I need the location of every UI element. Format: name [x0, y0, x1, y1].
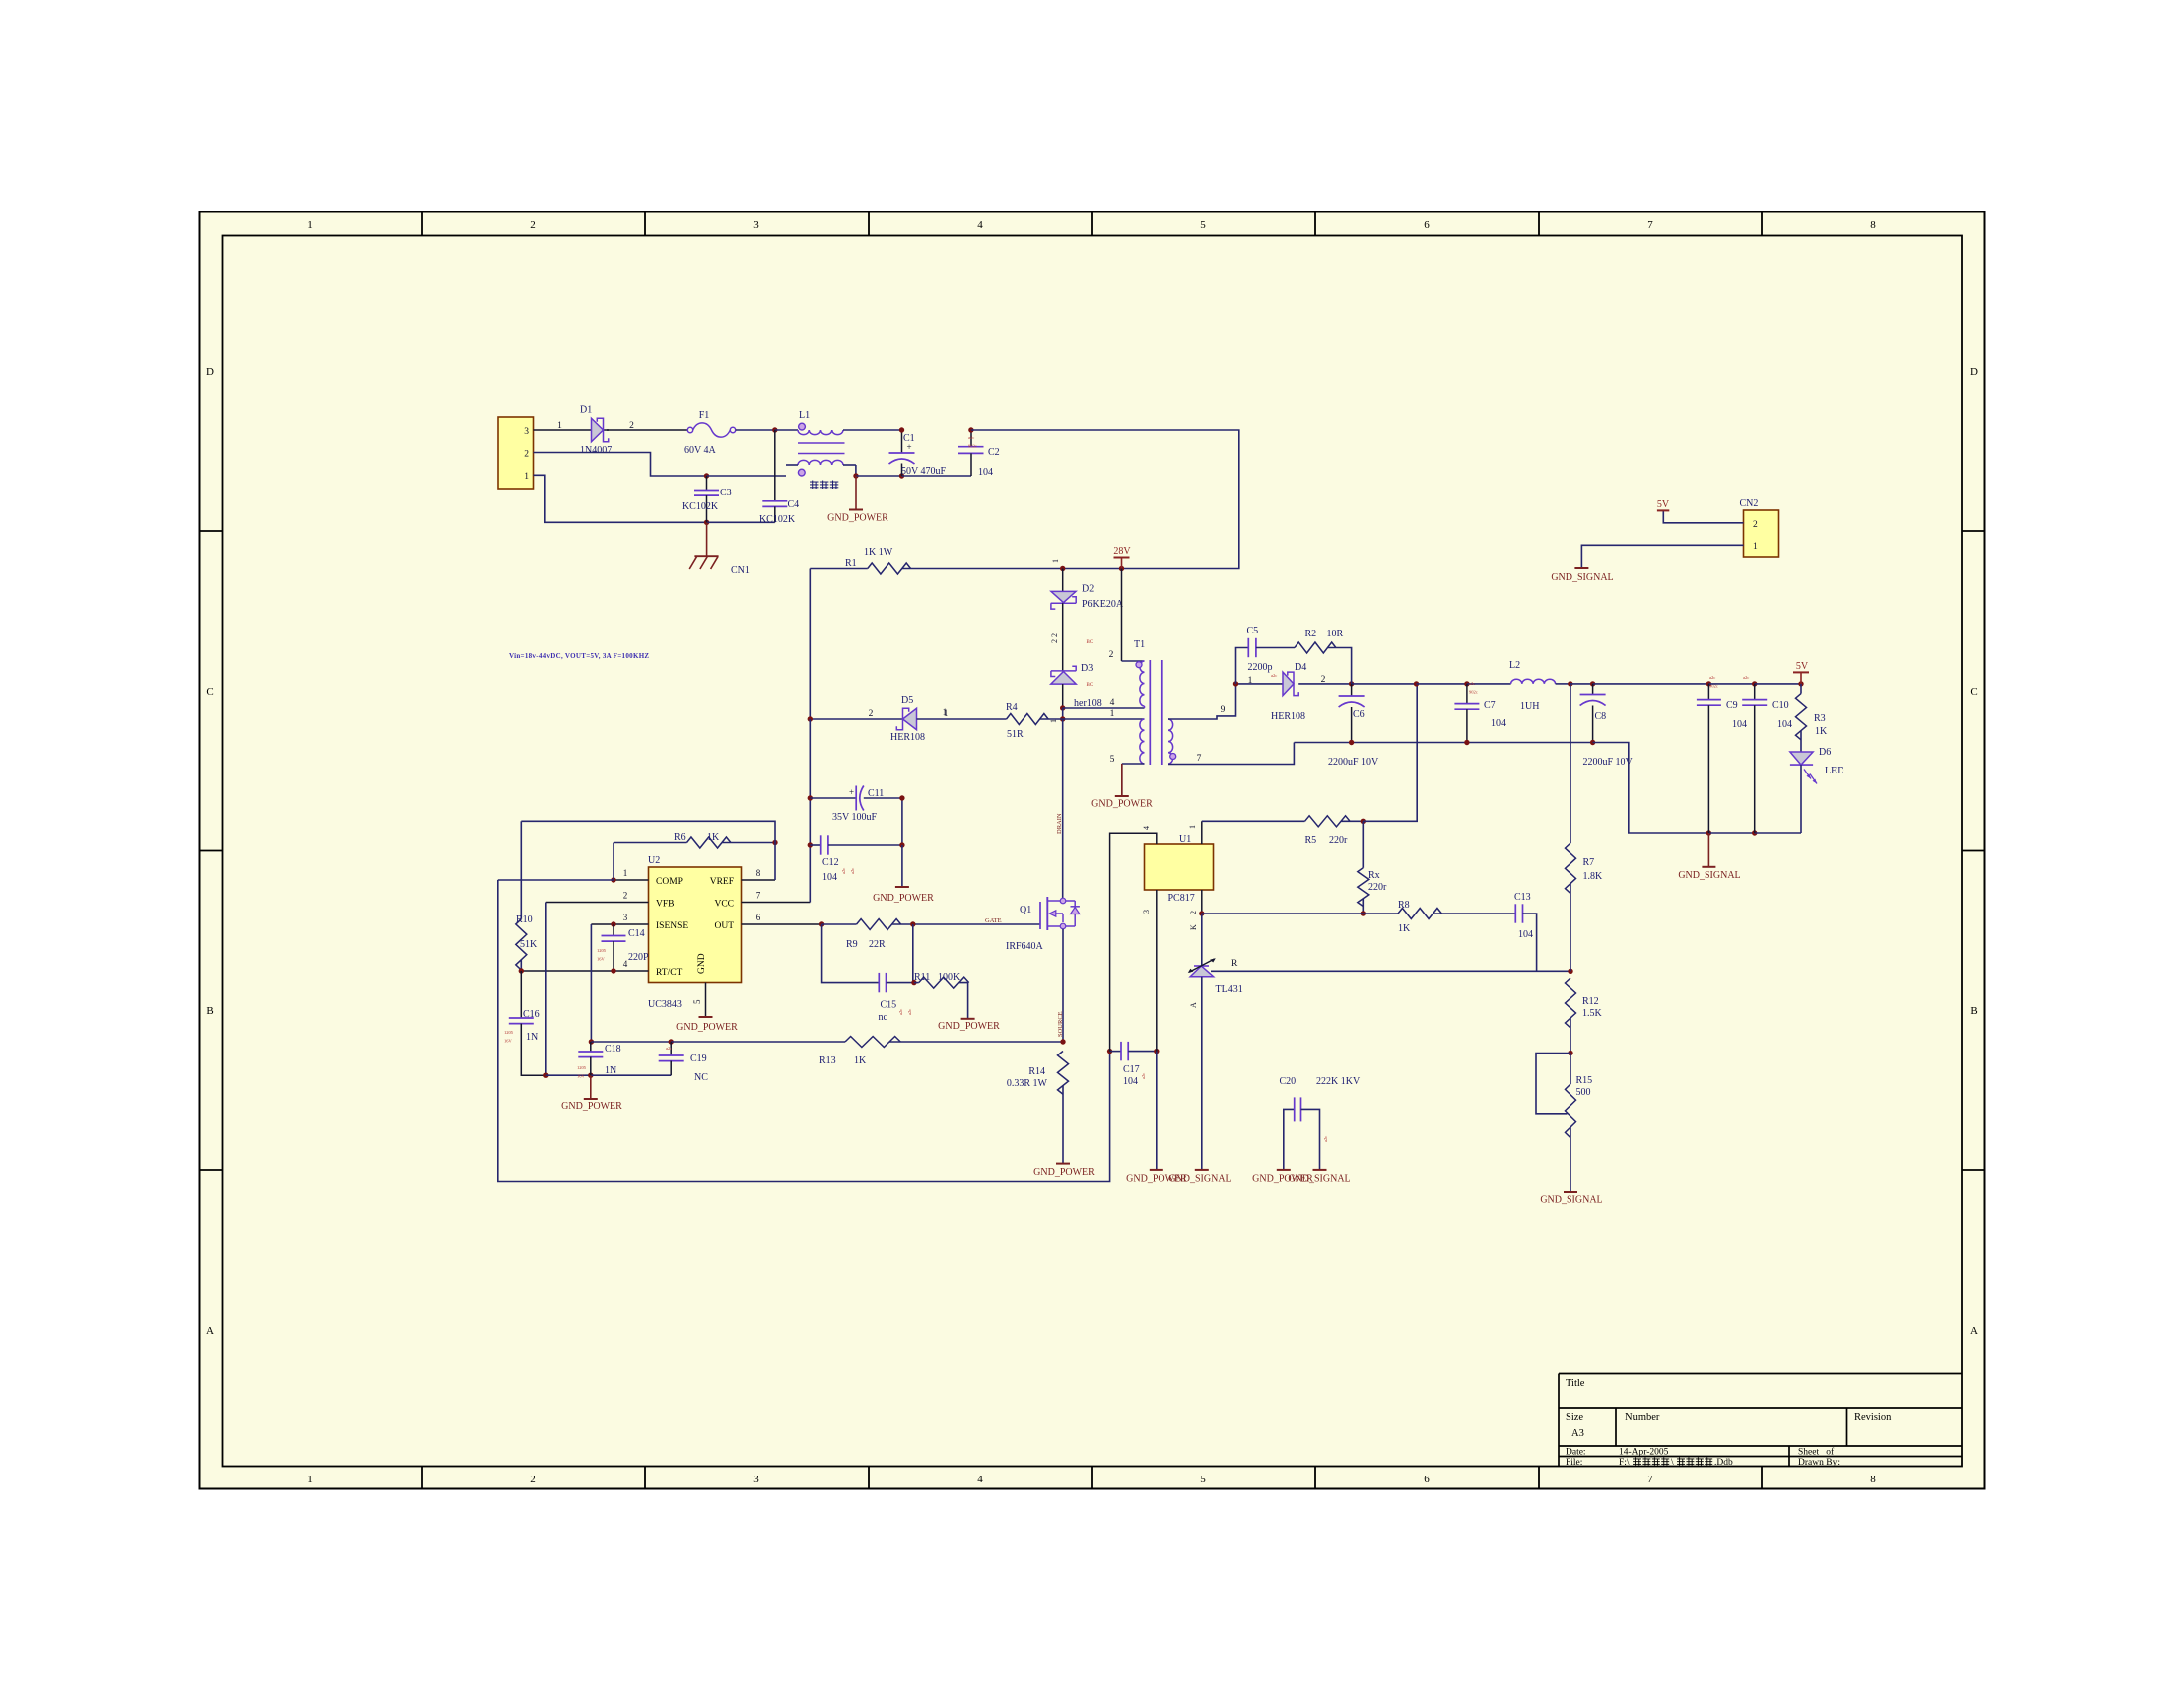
R9 value 22R — [869, 939, 886, 950]
wire R9 left lead — [822, 923, 857, 925]
wire rail to D4 — [1236, 683, 1284, 685]
small red mark above C2 — [968, 435, 977, 449]
U2 pin 4 RT/CT — [521, 959, 648, 971]
svg-text:D2: D2 — [1082, 584, 1094, 595]
wire C15 to R11 — [887, 982, 914, 984]
svg-text:7: 7 — [1197, 754, 1202, 764]
junction at F1/L1/C4 node — [772, 427, 777, 432]
pin number 2 of D5 — [869, 709, 874, 719]
capacitor C2 — [958, 430, 984, 476]
ground GND_POWER C11/C12 — [895, 886, 909, 888]
C20 value 222K 1KV — [1316, 1076, 1361, 1087]
svg-text:C1: C1 — [903, 433, 915, 444]
wire gate node down to R11 — [912, 924, 914, 983]
svg-text:16V: 16V — [577, 1074, 586, 1079]
svg-text:5: 5 — [692, 999, 702, 1004]
U1 pin 4 wire — [1110, 833, 1157, 1051]
net letter A — [1189, 1002, 1198, 1008]
svg-text:R: R — [1231, 959, 1238, 969]
svg-text:GND_SIGNAL: GND_SIGNAL — [1288, 1174, 1350, 1185]
resistor R5 — [1305, 816, 1351, 827]
svg-text:1UH: 1UH — [1520, 701, 1539, 712]
svg-text:8: 8 — [1870, 1474, 1876, 1485]
wire C7 to L2 — [1467, 683, 1511, 685]
wire R15 to ground — [1570, 1127, 1571, 1192]
svg-text:1205: 1205 — [504, 1030, 514, 1035]
GND_POWER label input filter — [827, 513, 888, 524]
svg-text:8: 8 — [1870, 219, 1876, 231]
resistor R10 — [516, 919, 527, 970]
IC U2 UC3843 — [649, 867, 742, 983]
svg-text:4: 4 — [977, 219, 983, 231]
resistor R12 — [1566, 978, 1576, 1028]
R15 designator — [1576, 1075, 1593, 1086]
net label GATE — [985, 917, 1002, 924]
D2 value P6KE20A — [1082, 599, 1124, 610]
svg-text:1N: 1N — [605, 1065, 616, 1076]
GND_POWER label T1 pin5 — [1091, 799, 1153, 810]
svg-text:L1: L1 — [799, 410, 810, 421]
D1 designator — [580, 405, 592, 416]
svg-text:nc: nc — [879, 1012, 888, 1023]
C1 designator — [903, 433, 915, 444]
C11 designator — [868, 788, 884, 799]
GND_POWER label C11/C12 — [873, 893, 934, 904]
svg-text:a2c: a2c — [898, 1009, 903, 1015]
pin number 7 of T1 — [1197, 754, 1202, 764]
wire D6 to gnd rail — [1800, 765, 1802, 833]
svg-text:F1: F1 — [699, 410, 710, 421]
wire CN2 pin2 to 5V — [1663, 510, 1743, 522]
U2 pin 5 GND — [692, 983, 706, 1018]
svg-text:IRF640A: IRF640A — [1006, 941, 1044, 952]
wire D1 to F1 — [607, 429, 609, 431]
junction at C10 top — [1752, 681, 1757, 686]
red mark at C12 — [841, 868, 855, 874]
red mark at C10 top — [1743, 675, 1749, 680]
R1 value 1K 1W — [864, 547, 893, 558]
svg-text:C11: C11 — [868, 788, 884, 799]
svg-text:A: A — [1970, 1325, 1978, 1336]
svg-text:OUT: OUT — [714, 921, 734, 931]
svg-text:B: B — [206, 1005, 213, 1017]
wire R2 down to C6 node — [1328, 648, 1352, 684]
C12 designator — [822, 857, 839, 868]
svg-text:D6: D6 — [1819, 747, 1831, 758]
svg-text:a2c: a2c — [1323, 1136, 1328, 1142]
svg-text:GND_SIGNAL: GND_SIGNAL — [1678, 870, 1740, 881]
R8 value 1K — [1398, 923, 1411, 934]
R5 designator — [1305, 835, 1317, 846]
resistor R8 — [1398, 909, 1441, 919]
svg-text:R10: R10 — [516, 914, 533, 925]
svg-text:GND_POWER: GND_POWER — [873, 893, 934, 904]
wire U1 pin3 to ground — [1156, 1052, 1158, 1170]
svg-text:1: 1 — [307, 219, 313, 231]
C8 designator — [1595, 711, 1607, 722]
svg-text:C10: C10 — [1772, 700, 1789, 711]
svg-text:104: 104 — [1518, 929, 1533, 940]
wire L1 return to C1 bottom — [856, 475, 902, 477]
svg-text:104: 104 — [1732, 719, 1747, 730]
wire CN1 pin3 to D1 — [534, 429, 688, 431]
svg-text:C15: C15 — [881, 1000, 897, 1011]
svg-text:R4: R4 — [1006, 702, 1018, 713]
pin number 2 of D1 — [629, 421, 634, 431]
wire ISENSE down to sense rail — [590, 924, 592, 1042]
svg-text:1: 1 — [623, 868, 628, 878]
svg-text:0.33R 1W: 0.33R 1W — [1007, 1078, 1048, 1089]
capacitor C10 — [1742, 684, 1767, 833]
net label DRAIN — [1056, 813, 1063, 834]
wire to R6 left — [614, 842, 687, 844]
svg-text:104: 104 — [978, 467, 993, 478]
svg-text:SOURCE: SOURCE — [1057, 1011, 1064, 1037]
svg-text:BC: BC — [1087, 640, 1094, 645]
capacitor C1 — [889, 430, 915, 476]
wire C9 to C10 — [1708, 683, 1754, 685]
ground GND_SIGNAL TL431 — [1195, 1169, 1209, 1171]
red mark at C16 — [504, 1030, 514, 1044]
wire down to VREF pin — [774, 843, 776, 881]
svg-text:8: 8 — [756, 868, 761, 878]
svg-text:3: 3 — [1142, 910, 1151, 914]
svg-text:9: 9 — [1221, 705, 1226, 715]
junction at source / R14 — [1060, 1039, 1065, 1044]
svg-text:1K: 1K — [707, 832, 720, 843]
svg-text:GND_POWER: GND_POWER — [938, 1021, 1000, 1032]
C9 designator — [1726, 700, 1738, 711]
svg-text:Date:: Date: — [1566, 1448, 1586, 1458]
resistor R13 — [845, 1037, 900, 1048]
svg-text:50V 470uF: 50V 470uF — [901, 466, 947, 477]
wire R7 to R row — [1570, 884, 1571, 972]
wire return rail jog down — [1593, 743, 1709, 834]
ground GND_SIGNAL C20 right — [1313, 1169, 1327, 1171]
wire C16 top lead — [520, 971, 522, 1018]
R2 value 10R — [1327, 629, 1344, 639]
svg-text:GATE: GATE — [985, 917, 1002, 924]
wire TL431 anode to ground — [1201, 977, 1203, 1170]
wire VFB down — [545, 903, 547, 1076]
svg-text:C5: C5 — [1247, 626, 1259, 636]
svg-text:1: 1 — [557, 421, 562, 431]
svg-text:a2c: a2c — [850, 868, 855, 874]
pin number 1 of U1 — [1188, 825, 1197, 829]
svg-text:7: 7 — [756, 891, 761, 901]
Rx designator — [1368, 870, 1380, 881]
C10 value 104 — [1777, 719, 1792, 730]
svg-text:C14: C14 — [628, 928, 645, 939]
U2 pin 2 VFB — [546, 891, 649, 903]
svg-text:16V: 16V — [597, 957, 606, 962]
svg-text:R14: R14 — [1028, 1066, 1045, 1077]
wire to D5 — [810, 718, 916, 720]
junction at C10 bottom — [1752, 830, 1757, 835]
R14 value 0.33R 1W — [1007, 1078, 1048, 1089]
LED D6 — [1790, 752, 1817, 784]
svg-text:902c: 902c — [1469, 690, 1478, 695]
svg-text:L2: L2 — [1509, 660, 1520, 671]
svg-text:5: 5 — [1110, 755, 1115, 765]
pin number 1 of T1 — [1110, 709, 1115, 719]
C17 value 104 — [1123, 1076, 1138, 1087]
capacitor C3 — [694, 476, 719, 522]
D6 value LED — [1825, 766, 1843, 776]
pin number 5 of T1 — [1110, 755, 1115, 765]
junction at T1 pin1 / R4 / drain — [1060, 716, 1065, 721]
ground GND_POWER U1 pin3 — [1150, 1169, 1163, 1171]
wire R row to divider — [1211, 970, 1570, 972]
wire R1 corner down to D5 node — [809, 569, 811, 720]
junction at C19 top — [669, 1039, 674, 1044]
svg-text:1: 1 — [1753, 542, 1758, 552]
svg-text:C12: C12 — [822, 857, 839, 868]
R10 value 51K — [520, 939, 538, 950]
svg-text:902c: 902c — [968, 444, 977, 449]
svg-text:GND: GND — [697, 953, 707, 974]
wire R14 to ground — [1062, 1086, 1064, 1164]
svg-text:P6KE20A: P6KE20A — [1082, 599, 1124, 610]
svg-text:1: 1 — [1110, 709, 1115, 719]
pin number 2 of T1 — [1109, 650, 1114, 660]
power 5V at CN2 — [1657, 499, 1670, 510]
C7 value 104 — [1491, 718, 1506, 729]
ground GND_SIGNAL R15 — [1564, 1191, 1577, 1193]
svg-text:File:: File: — [1566, 1458, 1582, 1468]
svg-text:1K: 1K — [1398, 923, 1411, 934]
pin numbers 2 2 of D2/D3 — [1050, 633, 1059, 643]
svg-text:51R: 51R — [1007, 729, 1024, 740]
GND_POWER label U1 pin3 — [1126, 1174, 1187, 1185]
R3 designator — [1814, 713, 1826, 724]
resistor R7 — [1566, 843, 1576, 894]
F1 value 60V 4A — [684, 445, 717, 456]
junction at C12 left — [808, 842, 813, 847]
C14 value 220P — [628, 952, 649, 963]
R11 designator — [914, 972, 930, 983]
Q1 designator — [1020, 905, 1031, 915]
svg-text:4: 4 — [977, 1474, 983, 1485]
svg-text:500: 500 — [1576, 1087, 1591, 1098]
svg-text:3: 3 — [753, 1474, 759, 1485]
wire R10 to RT/CT node — [520, 960, 522, 971]
R5 value 220r — [1329, 835, 1348, 846]
GND_SIGNAL label TL431 — [1168, 1174, 1231, 1185]
svg-text:a2c: a2c — [907, 1009, 912, 1015]
C15 designator — [881, 1000, 897, 1011]
wire R7 top lead — [1570, 684, 1571, 843]
svg-text:VFB: VFB — [656, 900, 674, 910]
C11 value 35V 100uF — [832, 812, 878, 823]
inductor L2 — [1511, 679, 1556, 684]
svg-text:a2c: a2c — [1469, 681, 1475, 686]
wire R12 to R15 — [1570, 1018, 1571, 1054]
pin number 2 of U1 — [1189, 911, 1198, 914]
junction at C1 top — [899, 427, 904, 432]
svg-text:D: D — [1970, 366, 1978, 378]
junction at C11 left — [808, 795, 813, 800]
T1 designator — [1134, 639, 1145, 650]
wire sense rail to R13 — [671, 1041, 845, 1043]
pin number 3 of U1 — [1142, 910, 1151, 914]
wire K down to TL431 — [1201, 914, 1203, 965]
U1 pin 2 stub — [1201, 890, 1203, 914]
junction at C12 right — [899, 842, 904, 847]
svg-text:CN1: CN1 — [731, 565, 750, 576]
svg-text:K: K — [1189, 924, 1198, 930]
wire R8 to C13 — [1433, 913, 1516, 914]
R3 value 1K — [1815, 726, 1828, 737]
svg-text:B: B — [1970, 1005, 1977, 1017]
U1 designator — [1179, 834, 1191, 845]
U2 pin 8 VREF — [742, 868, 776, 880]
svg-text:16V: 16V — [504, 1039, 513, 1044]
wire D5 to R4 — [917, 718, 1007, 720]
svg-text:C: C — [206, 686, 213, 698]
capacitor C19 — [659, 1042, 684, 1075]
wire C10 to 5V — [1755, 683, 1801, 685]
svg-text:D1: D1 — [580, 405, 592, 416]
net label R — [1231, 959, 1238, 969]
R9 designator — [846, 939, 858, 950]
svg-text:F:\: F:\ — [1619, 1458, 1630, 1468]
wire D2 to D3 — [1062, 603, 1064, 671]
resistor R6 — [687, 837, 731, 848]
svg-text:28V: 28V — [1113, 546, 1131, 557]
GND_POWER label R11 — [938, 1021, 1000, 1032]
svg-text:2: 2 — [1109, 650, 1114, 660]
R12 designator — [1582, 996, 1599, 1007]
C2 designator — [988, 447, 1000, 458]
junction at ISENSE / C14 — [611, 921, 615, 926]
capacitor C4 — [762, 430, 787, 522]
svg-text:R8: R8 — [1398, 900, 1410, 911]
junction at C2 top — [968, 427, 973, 432]
wire gnd rail C10-D6 — [1755, 832, 1801, 834]
capacitor C9 — [1697, 684, 1721, 833]
wire down to ground C12 — [901, 845, 903, 887]
pin number 1 of D4 — [1248, 676, 1253, 686]
wire return rail C6-C8 — [1294, 742, 1592, 744]
svg-text:C17: C17 — [1123, 1064, 1140, 1075]
GND_POWER label C20 — [1252, 1174, 1313, 1185]
svg-text:R13: R13 — [819, 1055, 836, 1066]
svg-text:6: 6 — [1424, 1474, 1430, 1485]
junction at D5 row / VCC column — [808, 716, 813, 721]
C13 designator — [1514, 892, 1531, 903]
GND_SIGNAL label CN2 — [1551, 572, 1613, 583]
junction at C5 / T1 pin9 — [1233, 681, 1238, 686]
wire R15 wiper loop — [1536, 1054, 1570, 1114]
GND_POWER label R14 — [1033, 1167, 1095, 1178]
U2 pin 1 COMP — [614, 868, 649, 880]
shunt regulator TL431 — [1188, 958, 1216, 977]
svg-text:GND_SIGNAL: GND_SIGNAL — [1540, 1195, 1602, 1206]
ground GND_POWER T1 pin5 — [1115, 764, 1129, 796]
svg-text:KC102K: KC102K — [759, 514, 796, 525]
wire Q1 source down — [1062, 929, 1064, 1042]
U2 pin 3 ISENSE — [591, 913, 648, 924]
ground GND_SIGNAL CN2 — [1574, 567, 1588, 569]
ground GND_POWER input filter — [849, 476, 863, 510]
svg-text:GND_POWER: GND_POWER — [1091, 799, 1153, 810]
D4 designator — [1295, 662, 1306, 673]
svg-text:2: 2 — [530, 1474, 536, 1485]
wire sense rail to C19 — [591, 1041, 671, 1043]
R10 designator — [516, 914, 533, 925]
wire bottom rail right segment — [591, 1074, 671, 1076]
svg-text:14-Apr-2005: 14-Apr-2005 — [1619, 1448, 1669, 1458]
svg-text:1: 1 — [307, 1474, 313, 1485]
U1 value PC817 — [1168, 893, 1195, 904]
D5 designator — [901, 695, 913, 706]
svg-text:GND_SIGNAL: GND_SIGNAL — [1551, 572, 1613, 583]
D3 value her108 — [1074, 698, 1102, 709]
ground GND_POWER C18 — [584, 1075, 598, 1099]
C14 designator — [628, 928, 645, 939]
svg-text:3: 3 — [753, 219, 759, 231]
svg-text:Size: Size — [1566, 1412, 1583, 1423]
junction at VFB / bottom rail — [543, 1073, 548, 1078]
junction at sense rail / C18 — [589, 1039, 594, 1044]
svg-text:T1: T1 — [1134, 639, 1145, 650]
svg-text:3: 3 — [623, 913, 628, 922]
svg-text:GND_POWER: GND_POWER — [827, 513, 888, 524]
wire COMP up to R6 — [613, 843, 614, 881]
wire CN1 pin2 to C3 node — [534, 453, 707, 477]
ground GND_POWER R14 — [1056, 1163, 1070, 1165]
wire T1 pin1 — [1063, 718, 1145, 720]
svg-text:4: 4 — [1142, 826, 1151, 830]
junction at R11 left — [911, 980, 916, 985]
R1 designator — [845, 558, 857, 569]
title block — [1559, 1374, 1962, 1469]
svg-text:1: 1 — [1248, 676, 1253, 686]
svg-text:2: 2 — [869, 709, 874, 719]
R7 designator — [1583, 857, 1595, 868]
junction at C6 bottom — [1349, 740, 1354, 745]
R12 value 1.5K — [1582, 1008, 1603, 1019]
C3 designator — [720, 488, 732, 498]
ground GND_SIGNAL output — [1702, 833, 1715, 867]
svg-text:7: 7 — [1647, 219, 1653, 231]
C1 value 50V 470uF — [901, 466, 947, 477]
C12 value 104 — [822, 872, 837, 883]
svg-text:D3: D3 — [1081, 663, 1093, 674]
ground GND_POWER R11 — [961, 1018, 975, 1020]
svg-text:C18: C18 — [605, 1044, 621, 1054]
wire COMP loop to PC817 pin4 — [498, 880, 1110, 1182]
junction at R5 column — [1414, 681, 1419, 686]
power 28V — [1113, 546, 1131, 569]
wire R9 left down to C15 — [822, 924, 880, 983]
svg-text:220P: 220P — [628, 952, 649, 963]
svg-text:Revision: Revision — [1854, 1412, 1892, 1423]
C15 value nc — [879, 1012, 888, 1023]
junction at 5V / R3 — [1798, 681, 1803, 686]
junction at U1 pin2 / K — [1199, 911, 1204, 915]
svg-text:51K: 51K — [520, 939, 538, 950]
R13 value 1K — [854, 1055, 867, 1066]
CN2 designator — [1740, 498, 1759, 509]
wire R11 left lead — [914, 982, 919, 984]
svg-text:R2: R2 — [1305, 629, 1317, 639]
wire bottom rail left segment — [546, 1074, 591, 1076]
pin number 4 of T1 — [1110, 698, 1115, 708]
inductor L1 (common-mode choke) — [775, 423, 902, 476]
svg-text:1: 1 — [1051, 559, 1060, 563]
